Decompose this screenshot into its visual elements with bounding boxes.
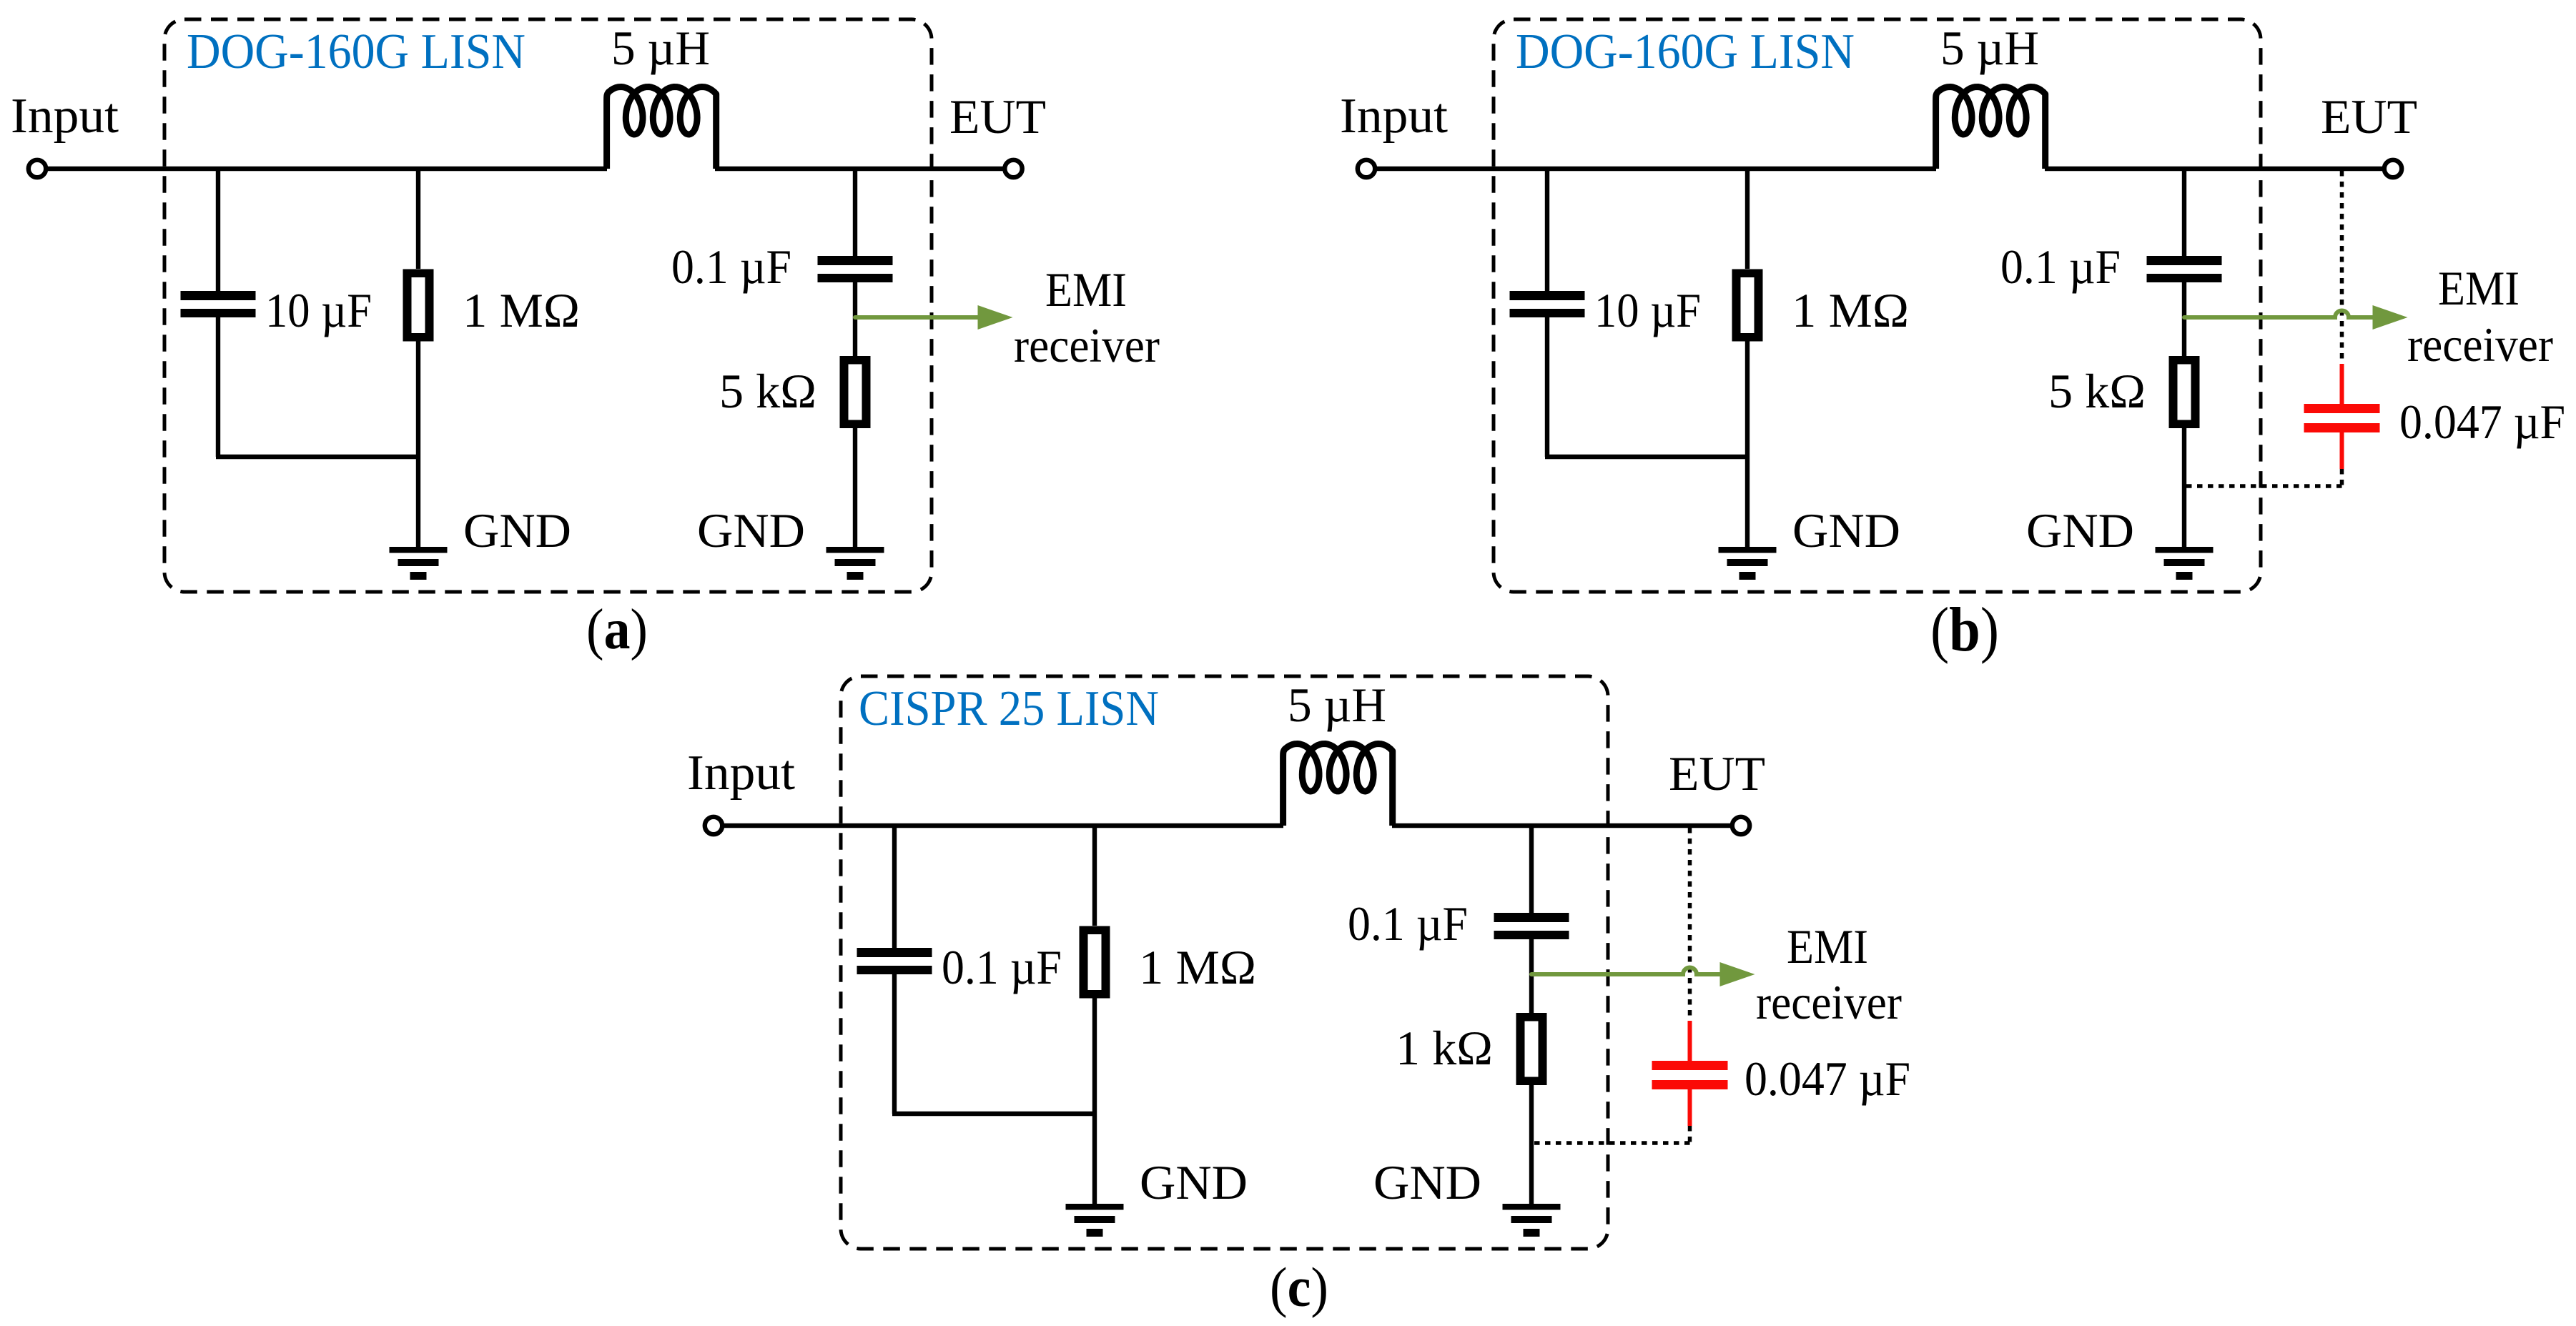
svg-text:receiver: receiver [2407, 317, 2553, 372]
svg-text:receiver: receiver [1014, 318, 1160, 372]
capacitor C1 0.1 uF (c) [857, 948, 932, 974]
inductor L1 5 uH (b) [1936, 87, 2045, 169]
wire: 10 uF cap to bottom node (a) [216, 317, 220, 457]
svg-text:GND: GND [1373, 1155, 1481, 1209]
capacitor 0.047 uF red (b) [2304, 404, 2380, 432]
ground symbol left (c) [1066, 1204, 1124, 1237]
EUT terminal (c) [1732, 817, 1750, 834]
svg-text:GND: GND [463, 503, 571, 558]
svg-text:Input: Input [1340, 89, 1449, 144]
svg-text:DOG-160G LISN: DOG-160G LISN [1516, 24, 1855, 79]
svg-text:(b): (b) [1930, 595, 1999, 665]
svg-text:5 kΩ: 5 kΩ [719, 364, 816, 418]
svg-text:GND: GND [697, 503, 805, 558]
ground symbol right (b) [2156, 547, 2214, 580]
svg-text:GND: GND [1140, 1155, 1248, 1209]
input terminal (a) [29, 160, 46, 177]
svg-text:0.047 µF: 0.047 µF [1745, 1052, 1910, 1106]
svg-text:0.047 µF: 0.047 µF [2399, 395, 2565, 449]
resistor R1 1 MOhm (c) [1080, 926, 1110, 999]
ground symbol right (c) [1503, 1204, 1561, 1237]
LISN enclosure dashed box (a) [164, 19, 932, 592]
svg-text:EUT: EUT [1669, 746, 1765, 801]
EMI receiver arrow line (b) [2184, 311, 2373, 318]
svg-text:0.1 µF: 0.1 µF [671, 239, 791, 294]
capacitor C1 10 uF (b) [1510, 291, 1585, 317]
resistor R1 1 MOhm (a) [403, 269, 434, 342]
wire: bottom connector 10 uF to 1 MOhm (b) [1545, 455, 1747, 459]
EMI receiver arrow head (b) [2373, 305, 2408, 330]
EMI receiver arrow line (c) [1531, 968, 1720, 975]
EMI receiver arrow head (c) [1720, 962, 1755, 986]
wire: bottom connector 10 uF to 1 MOhm (a) [216, 455, 418, 459]
svg-text:5 µH: 5 µH [1940, 21, 2039, 75]
dotted stub below red cap (b) [2340, 469, 2344, 488]
ground symbol left (b) [1719, 547, 1777, 580]
wire: input to inductor (b) [1377, 167, 1936, 171]
svg-text:Input: Input [687, 746, 796, 801]
svg-text:0.1 µF: 0.1 µF [942, 940, 1062, 994]
EMI receiver arrow line (a) [855, 315, 978, 320]
red capacitor top lead (b) [2340, 364, 2344, 405]
wire: 5 kOhm to ground (a) [853, 428, 857, 547]
svg-text:EMI: EMI [1045, 262, 1127, 317]
capacitor C2 0.1 uF (b) [2147, 256, 2222, 282]
wire: inductor to EUT terminal (c) [1392, 823, 1730, 828]
svg-text:EMI: EMI [1787, 919, 1868, 974]
svg-text:5 µH: 5 µH [611, 21, 710, 75]
wire: 10 uF branch (a) [216, 169, 220, 291]
LISN enclosure dashed box (b) [1494, 19, 2261, 592]
input terminal (c) [705, 817, 722, 834]
svg-text:Input: Input [11, 89, 119, 144]
dotted return line to 5 kOhm branch (b) [2184, 484, 2342, 488]
svg-text:(c): (c) [1270, 1256, 1328, 1318]
svg-text:1 MΩ: 1 MΩ [463, 283, 580, 337]
svg-text:receiver: receiver [1756, 975, 1902, 1029]
svg-text:GND: GND [1792, 503, 1900, 558]
wire: right cap to 1 kOhm (c) [1529, 939, 1534, 1013]
resistor R1 1 MOhm (b) [1732, 269, 1763, 342]
svg-text:10 µF: 10 µF [1594, 283, 1701, 337]
capacitor 0.047 uF red (c) [1652, 1061, 1728, 1089]
red capacitor bottom lead (b) [2340, 432, 2344, 469]
ground symbol right (a) [826, 547, 884, 580]
EUT terminal (a) [1005, 160, 1022, 177]
capacitor C2 0.1 uF (a) [818, 256, 893, 282]
inductor L1 5 uH (c) [1283, 744, 1393, 826]
wire: 10 uF branch (b) [1545, 169, 1549, 291]
EUT terminal (b) [2384, 160, 2402, 177]
wire: inductor to EUT terminal (b) [2045, 167, 2382, 171]
inductor L1 5 uH (a) [607, 87, 716, 169]
svg-text:0.1 µF: 0.1 µF [2000, 239, 2121, 294]
wire: 1 MOhm branch from main wire (a) [416, 169, 420, 269]
dotted tap line from EUT wire (b) [2340, 171, 2344, 364]
wire: 0.1 uF cap to 5 kOhm (a) [853, 282, 857, 356]
svg-text:10 µF: 10 µF [265, 283, 372, 337]
capacitor C1 10 uF (a) [181, 291, 256, 317]
wire: 5 kOhm to ground (b) [2182, 428, 2186, 547]
wire: 0.1 uF cap to 5 kOhm (b) [2182, 282, 2186, 356]
dotted tap line from EUT wire (c) [1688, 828, 1692, 1021]
red capacitor top lead (c) [1688, 1021, 1692, 1062]
wire: 1 MOhm to ground (c) [1092, 999, 1097, 1204]
wire: 10 uF cap to bottom node (b) [1545, 317, 1549, 457]
svg-text:CISPR 25 LISN: CISPR 25 LISN [859, 681, 1159, 736]
svg-text:(a): (a) [586, 597, 648, 661]
wire: 1 MOhm to ground (a) [416, 342, 420, 548]
svg-text:1 MΩ: 1 MΩ [1792, 283, 1909, 337]
dotted return line to 1 kOhm branch (c) [1531, 1141, 1690, 1145]
svg-text:1 kΩ: 1 kΩ [1396, 1021, 1493, 1075]
svg-text:EUT: EUT [949, 89, 1046, 144]
svg-text:GND: GND [2026, 503, 2134, 558]
ground symbol left (a) [390, 547, 448, 580]
svg-text:0.1 µF: 0.1 µF [1348, 896, 1468, 951]
wire: bottom connector left cap to 1 MOhm (c) [892, 1112, 1095, 1116]
wire: 1 MOhm branch from main wire (c) [1092, 826, 1097, 926]
dotted stub below red cap (c) [1688, 1126, 1692, 1145]
wire: 0.1 uF left branch (c) [892, 826, 897, 948]
wire: 1 MOhm to ground (b) [1745, 342, 1750, 548]
wire: 1 MOhm branch from main wire (b) [1745, 169, 1750, 269]
resistor R2 1 kOhm (c) [1516, 1013, 1547, 1085]
wire: inductor to EUT terminal (a) [715, 167, 1003, 171]
wire: 0.1 uF branch (a) [853, 169, 857, 256]
EMI receiver arrow head (a) [978, 305, 1013, 330]
wire: 0.1 uF right branch (c) [1529, 826, 1534, 913]
resistor R2 5 kOhm (a) [840, 356, 871, 428]
LISN enclosure dashed box (c) [841, 676, 1608, 1249]
capacitor C2 0.1 uF (c) [1494, 913, 1569, 939]
wire: left cap to bottom node (c) [892, 974, 897, 1114]
wire: 0.1 uF branch (b) [2182, 169, 2186, 256]
svg-text:EUT: EUT [2321, 89, 2417, 144]
wire: input to inductor (c) [724, 823, 1283, 828]
svg-text:5 kΩ: 5 kΩ [2048, 364, 2146, 418]
svg-text:EMI: EMI [2438, 261, 2520, 315]
resistor R2 5 kOhm (b) [2169, 356, 2200, 428]
svg-text:DOG-160G LISN: DOG-160G LISN [187, 24, 525, 79]
svg-text:1 MΩ: 1 MΩ [1139, 940, 1256, 994]
svg-text:5 µH: 5 µH [1288, 678, 1386, 732]
input terminal (b) [1358, 160, 1375, 177]
wire: 1 kOhm to ground (c) [1529, 1085, 1534, 1204]
red capacitor bottom lead (c) [1688, 1089, 1692, 1126]
wire: input to inductor (a) [48, 167, 607, 171]
